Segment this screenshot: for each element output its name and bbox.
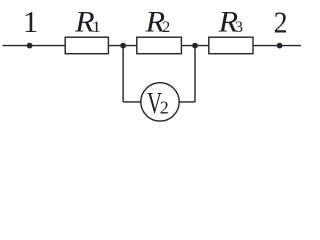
svg-text:3: 3 [235,19,243,36]
svg-text:2: 2 [160,98,169,118]
svg-text:2: 2 [274,5,288,40]
svg-text:2: 2 [162,19,170,36]
svg-text:1: 1 [92,19,102,36]
svg-text:1: 1 [23,4,39,39]
